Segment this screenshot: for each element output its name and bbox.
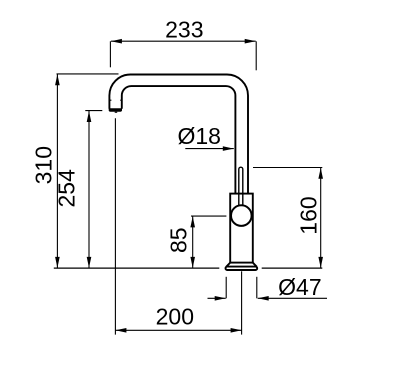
svg-text:85: 85: [165, 227, 191, 253]
svg-text:160: 160: [295, 196, 321, 234]
svg-text:200: 200: [156, 303, 194, 329]
svg-text:233: 233: [165, 16, 203, 42]
svg-text:Ø47: Ø47: [278, 274, 321, 300]
svg-text:Ø18: Ø18: [177, 123, 220, 149]
svg-text:254: 254: [53, 169, 79, 208]
